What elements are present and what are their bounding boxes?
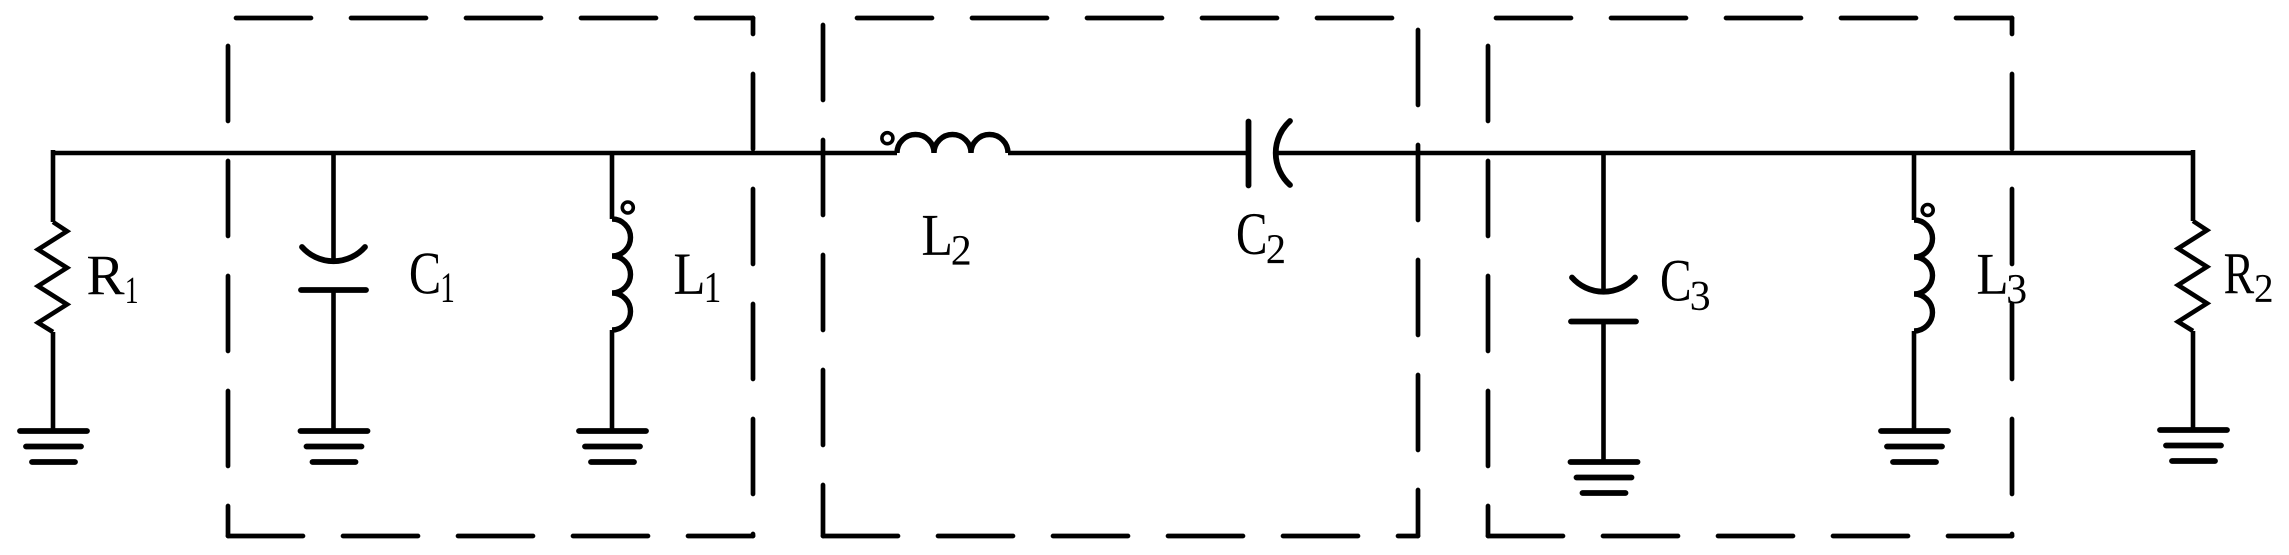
label C1 bbox=[411, 253, 453, 302]
label C3 bbox=[1662, 260, 1709, 310]
ground L1 bbox=[579, 431, 646, 462]
inductor L3 bbox=[1914, 153, 1933, 431]
capacitor C1 bbox=[331, 153, 336, 431]
ground L3 bbox=[1881, 431, 1948, 462]
dashed box 2 bbox=[823, 18, 1418, 536]
ground R1 bbox=[20, 431, 87, 462]
label L1 bbox=[675, 255, 719, 302]
label C2 bbox=[1238, 214, 1284, 263]
dashed box 1 bbox=[228, 18, 753, 536]
label R1 bbox=[88, 257, 137, 303]
wire right section from C2 to R2 bbox=[1277, 151, 2193, 156]
inductor L2 bbox=[897, 135, 1008, 154]
ground C3 bbox=[1571, 462, 1638, 493]
capacitor C3 bbox=[1601, 153, 1606, 462]
inductor L1 bbox=[612, 153, 631, 431]
dot terminal circle L3 bbox=[1922, 205, 1933, 216]
label L2 bbox=[923, 216, 970, 265]
resistor R1 bbox=[38, 150, 67, 431]
dot terminal circle L1 bbox=[622, 202, 633, 213]
wire main horizontal bus left section bbox=[53, 151, 897, 156]
dot terminal circle L2 bbox=[882, 133, 893, 144]
ground R2 bbox=[2160, 430, 2227, 461]
label L3 bbox=[1978, 255, 2026, 304]
wire middle section between L2 and C2 bbox=[1008, 151, 1246, 156]
label R2 bbox=[2225, 254, 2271, 302]
ground C1 bbox=[301, 431, 368, 462]
resistor R2 bbox=[2178, 150, 2207, 430]
dashed box 3 bbox=[1488, 18, 2012, 536]
capacitor C2 bbox=[1249, 121, 1291, 186]
